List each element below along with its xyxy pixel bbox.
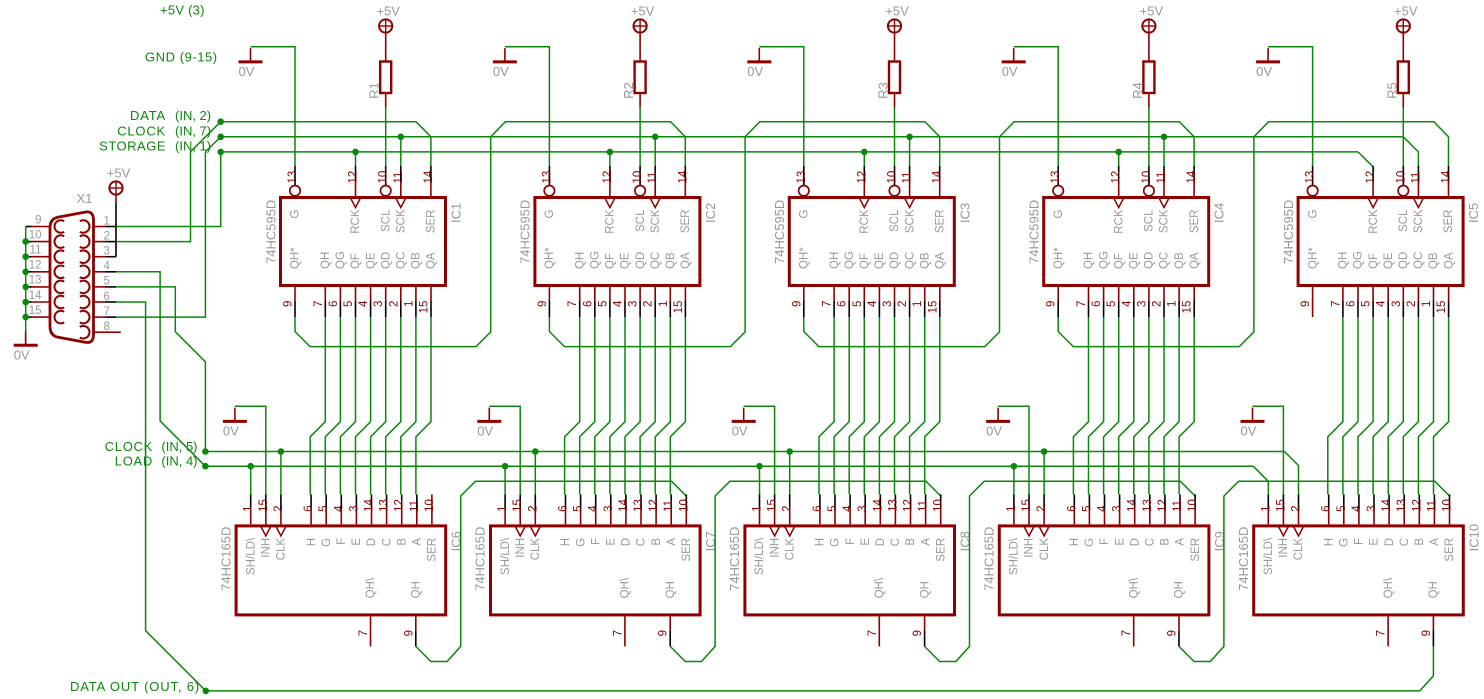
svg-text:SER: SER <box>1189 210 1201 234</box>
IC9 pin 1 stub <box>1013 494 1015 509</box>
svg-text:QB: QB <box>411 252 423 269</box>
IC2 pin 14 stub <box>684 166 686 181</box>
wire R4 to IC4 SCL pin 10 <box>1148 108 1150 167</box>
IC5 pin 1 stub <box>1433 287 1435 301</box>
svg-text:14: 14 <box>364 499 376 512</box>
IC7 pin 15 clock wedge <box>515 526 525 536</box>
IC9 pin 11 stub <box>1179 494 1181 509</box>
svg-text:9: 9 <box>403 630 415 636</box>
svg-text:4: 4 <box>333 505 345 512</box>
junction STORAGE at IC4 pin 12 <box>1115 149 1122 156</box>
svg-text:10: 10 <box>1442 499 1454 512</box>
svg-text:QH: QH <box>411 581 423 598</box>
ground 0V for IC10 INH pin <box>1241 420 1265 423</box>
wire IC1 QF to IC6 F <box>340 317 355 494</box>
wire IC2 QF to IC7 F <box>595 317 610 494</box>
svg-text:QH*: QH* <box>544 247 556 269</box>
IC2 pin 9 stub <box>548 287 550 301</box>
wire +5V to R2 <box>639 33 641 62</box>
IC7 pin 2 stub <box>534 494 536 509</box>
IC2 pin 2 stub <box>654 287 656 301</box>
IC1 pin 2 stub <box>400 287 402 301</box>
IC5 pin 12 stub <box>1372 166 1374 181</box>
IC2 pin 12 stub <box>609 166 611 181</box>
svg-text:13: 13 <box>887 499 899 512</box>
wire IC3 QA to IC8 A <box>925 317 940 494</box>
wire IC3 QE to IC8 E <box>864 317 879 494</box>
junction CLOCK at label <box>217 134 224 141</box>
wire IC5 QA to IC10 A <box>1434 317 1449 494</box>
wire 0V to IC4 pin 13 G <box>1014 47 1058 166</box>
svg-text:QH: QH <box>829 252 841 269</box>
svg-text:QH\: QH\ <box>874 577 886 598</box>
svg-text:QD: QD <box>635 252 647 269</box>
wire X1 pin 5 to CLOCK (IN 5) <box>116 287 205 452</box>
wire IC5 QB to IC10 B <box>1418 317 1433 494</box>
svg-text:(IN, 2): (IN, 2) <box>175 108 211 123</box>
junction DATA at label <box>217 118 224 125</box>
svg-text:15: 15 <box>1436 301 1448 314</box>
IC4 pin 9 stub <box>1057 287 1059 301</box>
X1 left pin cup row 11 <box>54 250 64 263</box>
IC10 pin 12 stub <box>1418 494 1420 509</box>
svg-text:INH: INH <box>515 538 527 558</box>
svg-text:5: 5 <box>597 301 609 307</box>
svg-text:7: 7 <box>822 301 834 307</box>
svg-text:IC10: IC10 <box>1466 524 1481 551</box>
svg-text:13: 13 <box>796 171 808 184</box>
IC8 pin 7 stub <box>878 616 880 646</box>
svg-text:E: E <box>351 538 363 546</box>
svg-text:QE: QE <box>365 252 377 269</box>
svg-text:14: 14 <box>1381 499 1393 512</box>
IC10 pin 10 stub <box>1449 494 1451 509</box>
svg-text:1: 1 <box>912 301 924 307</box>
svg-text:QH: QH <box>574 252 586 269</box>
IC2 pin 11 clock wedge <box>650 198 660 208</box>
wire IC3 QD to IC8 D <box>879 317 894 494</box>
svg-text:QC: QC <box>904 252 916 269</box>
wire IC5 QC to IC10 C <box>1403 317 1418 494</box>
svg-text:QB: QB <box>665 252 677 269</box>
IC4 pin 14 stub <box>1193 166 1195 181</box>
wire IC4 QH to IC9 H <box>1073 317 1088 494</box>
junction CLOCK at IC1 pin 11 <box>398 134 405 141</box>
junction CLOCK at IC6 pin 2 <box>278 448 285 455</box>
wire STORAGE to IC3 pin 12 RCK <box>863 152 865 166</box>
svg-text:G: G <box>799 209 811 218</box>
svg-text:SCK: SCK <box>1413 209 1425 233</box>
svg-text:0V: 0V <box>747 64 763 79</box>
wire LOAD to IC6 pin 1 SH/LD <box>250 466 252 494</box>
svg-text:14: 14 <box>1127 499 1139 512</box>
IC7 pin 12 stub <box>655 494 657 509</box>
IC4 pin 11 clock wedge <box>1159 198 1169 208</box>
IC3 pin 12 clock wedge <box>859 198 869 208</box>
svg-text:R3: R3 <box>876 82 891 99</box>
svg-text:3: 3 <box>1366 505 1378 511</box>
wire IC4 QE to IC9 E <box>1119 317 1134 494</box>
IC9 pin 15 stub <box>1028 494 1030 509</box>
wire +5V to R4 <box>1148 33 1150 62</box>
svg-text:F: F <box>845 538 857 545</box>
IC4 pin 4 stub <box>1133 287 1135 301</box>
svg-text:H: H <box>1069 538 1081 546</box>
svg-text:12: 12 <box>1111 171 1123 184</box>
svg-text:A: A <box>412 538 424 546</box>
IC8 pin 10 stub <box>940 494 942 509</box>
resistor R1 <box>380 62 391 94</box>
wire STORAGE to IC4 pin 12 RCK <box>1118 152 1120 166</box>
svg-text:QC: QC <box>1413 252 1425 269</box>
svg-text:SH/LD\: SH/LD\ <box>500 537 512 575</box>
svg-text:SCK: SCK <box>904 209 916 233</box>
svg-text:2: 2 <box>1291 505 1303 511</box>
wire 0V to IC5 pin 13 G <box>1268 47 1313 166</box>
IC10 pin 6 stub <box>1328 494 1330 509</box>
wire +5V to R1 <box>385 33 387 62</box>
svg-text:+5V: +5V <box>885 3 909 18</box>
wire IC1 QB to IC6 B <box>401 317 416 494</box>
svg-text:12: 12 <box>1411 499 1423 512</box>
junction DATA OUT at label <box>203 688 210 695</box>
svg-text:QC: QC <box>396 252 408 269</box>
svg-text:SCL: SCL <box>635 209 647 232</box>
IC6 pin 5 stub <box>325 494 327 509</box>
wire IC2 QG to IC7 G <box>580 317 595 494</box>
junction GND rail at pin 15 <box>22 314 29 321</box>
IC10 74HC165D body <box>1254 526 1464 615</box>
X1 pin 9 stub <box>26 226 32 228</box>
wire net CLOCK (IN 5) horizontal <box>205 451 1284 453</box>
IC2 pin 13 stub <box>548 166 550 185</box>
X1 pin 12 stub <box>26 271 32 273</box>
svg-text:1: 1 <box>658 301 670 307</box>
IC5 pin 3 stub <box>1402 287 1404 301</box>
svg-text:+5V: +5V <box>631 3 655 18</box>
svg-text:1: 1 <box>752 505 764 511</box>
IC3 pin 9 stub <box>803 287 805 301</box>
IC5 pin 5 stub <box>1372 287 1374 301</box>
ground 0V for IC3 G pin <box>747 60 771 63</box>
svg-text:CLK: CLK <box>784 538 796 561</box>
svg-text:QB: QB <box>919 252 931 269</box>
IC4 pin 7 stub <box>1088 287 1090 301</box>
IC10 pin 9 stub <box>1432 616 1434 630</box>
IC1 pin 11 clock wedge <box>396 198 406 208</box>
svg-text:QH: QH <box>1428 581 1440 598</box>
svg-text:11: 11 <box>409 500 421 512</box>
svg-text:7: 7 <box>1330 301 1342 307</box>
wire cascade IC6 QH to IC7 SER <box>416 481 687 661</box>
svg-text:QH*: QH* <box>1307 247 1319 269</box>
IC7 pin 15 stub <box>519 494 521 509</box>
X1 right pin cup row 3 <box>80 250 90 263</box>
svg-text:QH*: QH* <box>799 247 811 269</box>
svg-text:G: G <box>1307 209 1319 218</box>
wire X1 pin 7 riser to CLOCK diagonal <box>205 137 220 152</box>
wire IC3 QH to IC8 H <box>819 317 834 494</box>
svg-text:SER: SER <box>1443 210 1455 234</box>
svg-text:SER: SER <box>1190 538 1202 562</box>
svg-text:1: 1 <box>1421 301 1433 307</box>
svg-text:9: 9 <box>658 630 670 636</box>
svg-text:STORAGE: STORAGE <box>99 138 166 153</box>
svg-text:12: 12 <box>856 171 868 184</box>
wire CLOCK to IC2 pin 11 SCK <box>654 137 656 166</box>
svg-text:0V: 0V <box>223 424 239 439</box>
X1 pin 5 stub <box>94 286 106 288</box>
svg-text:G: G <box>1053 209 1065 218</box>
svg-text:C: C <box>636 538 648 546</box>
IC7 pin 2 clock wedge <box>530 526 540 536</box>
resistor R3 <box>889 62 900 94</box>
svg-text:SH/LD\: SH/LD\ <box>245 537 257 575</box>
svg-text:G: G <box>1084 538 1096 547</box>
wire IC5 QH to IC10 H <box>1328 317 1343 494</box>
svg-text:QC: QC <box>650 252 662 269</box>
ground 0V for IC7 INH pin <box>477 420 501 423</box>
X1 pin 11 stub <box>26 256 32 258</box>
wire cascade IC3 QH* to IC4 SER <box>804 122 1194 347</box>
svg-text:QA: QA <box>426 252 438 269</box>
svg-text:D: D <box>1129 538 1141 546</box>
wire cascade IC2 QH* to IC3 SER <box>549 122 939 347</box>
X1 pin 7 stub <box>94 316 106 318</box>
junction CLOCK at IC9 pin 2 <box>1041 448 1048 455</box>
IC3 pin 13 stub <box>803 166 805 185</box>
svg-text:13: 13 <box>379 499 391 512</box>
IC10 pin 11 stub <box>1433 494 1435 509</box>
svg-text:QB: QB <box>1428 252 1440 269</box>
svg-text:6: 6 <box>303 505 315 511</box>
IC10 pin 13 stub <box>1403 494 1405 509</box>
X1 pin 13 stub <box>26 286 32 288</box>
svg-text:10: 10 <box>632 171 644 184</box>
svg-text:IC2: IC2 <box>703 203 718 223</box>
ground 0V for IC9 INH pin <box>986 420 1010 423</box>
junction STORAGE at IC3 pin 12 <box>861 149 868 156</box>
svg-text:QG: QG <box>590 251 602 269</box>
svg-text:QE: QE <box>874 252 886 269</box>
svg-text:QH: QH <box>1338 252 1350 269</box>
IC10 pin 3 stub <box>1373 494 1375 509</box>
svg-text:6: 6 <box>1346 301 1358 307</box>
svg-text:1: 1 <box>1006 505 1018 511</box>
X1 pin 4 stub <box>94 271 106 273</box>
svg-text:QG: QG <box>1098 251 1110 269</box>
svg-text:2: 2 <box>782 505 794 511</box>
svg-text:QF: QF <box>1113 253 1125 269</box>
IC8 pin 3 stub <box>864 494 866 509</box>
svg-text:5: 5 <box>1106 301 1118 307</box>
wire IC3 QB to IC8 B <box>910 317 925 494</box>
svg-text:QA: QA <box>680 252 692 269</box>
svg-text:B: B <box>1414 538 1426 546</box>
IC9 pin 2 clock wedge <box>1039 526 1049 536</box>
svg-text:74HC165D: 74HC165D <box>1236 527 1251 591</box>
svg-text:1: 1 <box>497 505 509 511</box>
svg-text:14: 14 <box>677 170 689 183</box>
svg-text:13: 13 <box>1396 499 1408 512</box>
svg-text:SCK: SCK <box>650 209 662 233</box>
svg-text:SER: SER <box>681 538 693 562</box>
svg-text:5: 5 <box>343 301 355 307</box>
IC3 pin 10 stub <box>894 166 896 185</box>
svg-text:12: 12 <box>1157 499 1169 512</box>
IC1 pin 12 stub <box>355 166 357 181</box>
IC9 pin 15 clock wedge <box>1024 526 1034 536</box>
svg-text:QH: QH <box>1174 581 1186 598</box>
svg-text:74HC595D: 74HC595D <box>263 200 278 264</box>
IC1 pin 7 stub <box>324 287 326 301</box>
svg-text:SH/LD\: SH/LD\ <box>1009 537 1021 575</box>
svg-text:7: 7 <box>612 630 624 636</box>
IC1 pin 9 stub <box>294 287 296 301</box>
svg-text:9: 9 <box>35 214 41 226</box>
svg-text:QG: QG <box>335 251 347 269</box>
IC5 pin 9 stub <box>1312 287 1314 317</box>
wire DATA OUT to X1 pin 6 <box>116 302 206 691</box>
svg-text:14: 14 <box>932 170 944 183</box>
IC7 pin 5 stub <box>580 494 582 509</box>
wire X1 pin 7 to CLOCK <box>116 152 205 317</box>
IC7 pin 9 stub <box>669 616 671 630</box>
svg-text:2: 2 <box>388 301 400 307</box>
svg-text:LOAD: LOAD <box>115 454 153 469</box>
svg-text:4: 4 <box>842 505 854 512</box>
svg-text:A: A <box>1175 538 1187 546</box>
IC1 pin 11 stub <box>400 166 402 181</box>
IC10 pin 7 stub <box>1387 616 1389 646</box>
wire IC4 QC to IC9 C <box>1149 317 1164 494</box>
svg-text:2: 2 <box>643 301 655 307</box>
junction CLOCK at IC7 pin 2 <box>532 448 539 455</box>
svg-text:C: C <box>1145 538 1157 546</box>
wire cascade IC4 QH* to IC5 SER <box>1058 122 1448 347</box>
svg-text:12: 12 <box>394 499 406 512</box>
svg-text:F: F <box>590 538 602 545</box>
IC9 pin 14 stub <box>1134 494 1136 509</box>
IC10 pin 15 clock wedge <box>1278 526 1288 536</box>
svg-text:10: 10 <box>933 499 945 512</box>
IC6 pin 12 stub <box>401 494 403 509</box>
svg-text:QF: QF <box>350 253 362 269</box>
svg-text:15: 15 <box>1021 499 1033 512</box>
IC7 pin 4 stub <box>595 494 597 509</box>
X1 left pin cup row 14 <box>54 296 64 309</box>
svg-text:QA: QA <box>935 252 947 269</box>
IC1 pin 1 stub <box>415 287 417 301</box>
IC3 pin 1 stub <box>924 287 926 301</box>
svg-text:1: 1 <box>403 301 415 307</box>
svg-text:QH: QH <box>320 252 332 269</box>
IC7 pin 6 stub <box>565 494 567 509</box>
IC6 pin 2 stub <box>280 494 282 509</box>
svg-text:QH*: QH* <box>290 247 302 269</box>
resistor R2 <box>635 62 646 94</box>
svg-text:X1: X1 <box>77 191 93 206</box>
wire IC2 QD to IC7 D <box>625 317 640 494</box>
svg-text:10: 10 <box>29 229 42 241</box>
IC5 pin 2 stub <box>1417 287 1419 301</box>
IC6 pin 13 stub <box>386 494 388 509</box>
svg-text:4: 4 <box>1351 505 1363 512</box>
svg-text:CLK: CLK <box>1293 538 1305 561</box>
svg-text:7: 7 <box>313 301 325 307</box>
svg-text:3: 3 <box>104 246 110 258</box>
svg-text:R1: R1 <box>367 82 382 99</box>
IC9 pin 7 stub <box>1133 616 1135 646</box>
svg-text:1: 1 <box>1260 505 1272 511</box>
X1 right pin cup row 4 <box>80 266 90 279</box>
IC2 pin 10 stub <box>639 166 641 185</box>
svg-text:1: 1 <box>243 505 255 511</box>
wire IC5 QE to IC10 E <box>1373 317 1388 494</box>
wire IC1 QG to IC6 G <box>325 317 340 494</box>
wire IC5 QD to IC10 D <box>1388 317 1403 494</box>
IC8 pin 15 clock wedge <box>770 526 780 536</box>
svg-text:3: 3 <box>857 505 869 511</box>
IC3 pin 11 stub <box>909 166 911 181</box>
wire CLOCK to IC9 pin 2 CLK <box>1043 452 1045 495</box>
svg-text:15: 15 <box>29 305 42 317</box>
IC5 pin 7 stub <box>1342 287 1344 301</box>
junction CLOCK at IC2 pin 11 <box>652 134 659 141</box>
svg-text:10: 10 <box>378 171 390 184</box>
svg-text:5: 5 <box>1081 505 1093 511</box>
IC8 pin 11 stub <box>925 494 927 509</box>
X1 right pin cup row 1 <box>80 220 90 233</box>
IC4 pin 12 stub <box>1118 166 1120 181</box>
svg-text:5: 5 <box>104 276 110 288</box>
X1 left pin cup row 13 <box>54 281 64 294</box>
svg-text:9: 9 <box>791 301 803 307</box>
svg-text:G: G <box>290 209 302 218</box>
svg-text:H: H <box>1323 538 1335 546</box>
ground 0V for IC5 G pin <box>1256 60 1280 63</box>
svg-text:H: H <box>306 538 318 546</box>
svg-text:14: 14 <box>423 170 435 183</box>
wire IC3 QC to IC8 C <box>895 317 910 494</box>
wire IC1 QD to IC6 D <box>371 317 386 494</box>
svg-text:QF: QF <box>859 253 871 269</box>
svg-text:10: 10 <box>887 171 899 184</box>
IC7 74HC165D body <box>491 526 701 615</box>
svg-text:5: 5 <box>827 505 839 511</box>
ground 0V for IC6 INH pin <box>223 420 247 423</box>
IC9 pin 12 stub <box>1164 494 1166 509</box>
svg-text:C: C <box>890 538 902 546</box>
IC4 pin 15 stub <box>1193 287 1195 301</box>
svg-text:13: 13 <box>1142 499 1154 512</box>
wire IC4 QD to IC9 D <box>1134 317 1149 494</box>
svg-text:SER: SER <box>934 210 946 234</box>
svg-text:C: C <box>381 538 393 546</box>
IC5 74HC595D body <box>1298 198 1463 286</box>
svg-text:SER: SER <box>427 538 439 562</box>
wire 0V to IC9 pin 15 INH <box>998 406 1029 494</box>
wire X1 pin 4 to LOAD <box>116 272 205 466</box>
junction CLOCK at IC8 pin 2 <box>786 448 793 455</box>
IC2 pin 1 stub <box>669 287 671 301</box>
wire 0V to IC8 pin 15 INH <box>744 406 775 494</box>
IC7 pin 10 stub <box>685 494 687 509</box>
svg-text:6: 6 <box>558 505 570 511</box>
svg-text:74HC595D: 74HC595D <box>772 200 787 264</box>
ground 0V for IC2 G pin <box>493 60 517 63</box>
wire cascade IC1 QH* to IC2 SER <box>295 122 685 347</box>
